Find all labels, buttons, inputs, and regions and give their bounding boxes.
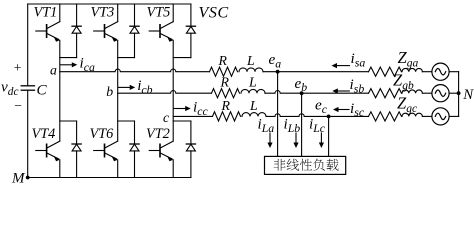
diode Da-bot (antiparallel of VT4): [60, 121, 81, 178]
current arrow i_sb: [332, 88, 349, 93]
svg-text:VT5: VT5: [147, 4, 171, 20]
current arrow i_ca: [60, 62, 77, 67]
inductor L (phase b): [241, 89, 265, 93]
wire: row c from leg to R: [173, 115, 212, 117]
wire: phase b leg: [117, 40, 119, 141]
diode Db-bot (antiparallel of VT6): [118, 121, 139, 178]
transistor VT5: [149, 4, 173, 42]
wire: row a from leg to R: [60, 69, 210, 72]
inductor part of Z_gc: [402, 113, 422, 116]
svg-text:L: L: [248, 75, 257, 90]
AC grid source phase c: [432, 108, 449, 125]
svg-text:VT6: VT6: [90, 126, 115, 142]
svg-text:R: R: [218, 53, 228, 68]
svg-text:C: C: [37, 82, 48, 99]
current arrow i_cc: [174, 106, 191, 111]
transistor VT4: [36, 141, 60, 177]
diode Dc-bot (antiparallel of VT2): [173, 121, 195, 178]
diode Dc-top (antiparallel of VT5): [173, 4, 195, 58]
wire: right grid neutral rail: [458, 72, 460, 117]
svg-text:VSC: VSC: [199, 5, 229, 22]
current arrow i_La: [267, 133, 272, 148]
svg-text:a: a: [50, 63, 57, 78]
node M dot: [26, 176, 30, 180]
transistor VT1: [36, 4, 60, 42]
wire: left DC bus upper segment: [27, 4, 29, 86]
wire: phase a leg: [59, 40, 61, 141]
svg-text:R: R: [220, 75, 230, 90]
svg-text:VT1: VT1: [34, 4, 58, 20]
node N dot: [457, 91, 461, 95]
current arrow i_Lc: [319, 133, 324, 148]
node e_c dot: [327, 115, 331, 119]
resistor part of Z_gc: [369, 112, 402, 121]
transistor VT3: [94, 4, 118, 42]
AC grid source phase b: [432, 85, 449, 102]
capacitor C plates: [21, 86, 34, 90]
wire: source c to N rail: [449, 115, 459, 117]
wire: row b to grid: [265, 91, 369, 94]
circuit schematic: three-phase grid-connected VSC with nonlinear load: [0, 0, 474, 183]
wire: source b to N rail: [449, 92, 459, 94]
wire: row b from leg to R: [118, 91, 212, 94]
resistor part of Z_ga: [369, 67, 402, 76]
current arrow i_sc: [333, 107, 349, 112]
node e_b dot: [300, 91, 304, 95]
wire: phase c leg: [172, 40, 174, 141]
wire: Z to source b: [422, 92, 432, 94]
wire: row a to grid: [263, 71, 369, 73]
svg-text:−: −: [14, 98, 22, 113]
wire: load feeder from e_b: [301, 93, 303, 156]
wire: Z to source c: [422, 115, 432, 117]
current arrow i_Lb: [293, 133, 298, 148]
svg-text:+: +: [14, 60, 22, 75]
inductor L (phase c): [242, 113, 266, 117]
svg-text:VT3: VT3: [91, 4, 115, 20]
wire: Z to source a: [422, 71, 432, 73]
nonlinear load box: [265, 156, 346, 174]
diode Da-top (antiparallel of VT1): [60, 4, 81, 58]
node e_a dot: [276, 70, 280, 74]
svg-text:VT2: VT2: [146, 126, 170, 142]
svg-text:R: R: [221, 98, 231, 113]
svg-text:VT4: VT4: [32, 126, 56, 142]
svg-text:c: c: [163, 110, 169, 125]
label 非线性负载 (nonlinear load): [274, 159, 339, 171]
svg-text:b: b: [106, 84, 113, 99]
resistor part of Z_gb: [369, 89, 402, 98]
wire: load feeder from e_c: [328, 116, 330, 156]
svg-text:L: L: [249, 98, 258, 113]
svg-text:M: M: [11, 171, 26, 184]
inductor L (phase a): [239, 68, 263, 72]
diode Db-top (antiparallel of VT3): [118, 4, 139, 58]
svg-text:N: N: [462, 87, 474, 103]
wire: load feeder from e_a: [277, 72, 279, 157]
inductor part of Z_gb: [402, 90, 422, 93]
AC grid source phase a: [432, 63, 449, 80]
wire: row c to grid: [266, 114, 369, 117]
svg-text:L: L: [246, 53, 255, 68]
wire: bottom DC rail: [28, 177, 191, 179]
inductor part of Z_ga: [402, 68, 422, 71]
current arrow i_cb: [118, 85, 135, 90]
resistor R (phase c): [213, 112, 241, 121]
transistor VT2: [149, 141, 173, 177]
resistor R (phase a): [210, 67, 238, 76]
wire: left DC bus lower segment: [27, 90, 29, 177]
resistor R (phase b): [212, 89, 240, 98]
wire: top DC rail: [28, 3, 191, 5]
wire: source a to N rail: [449, 71, 459, 73]
current arrow i_sa: [332, 63, 350, 68]
transistor VT6: [94, 141, 118, 177]
